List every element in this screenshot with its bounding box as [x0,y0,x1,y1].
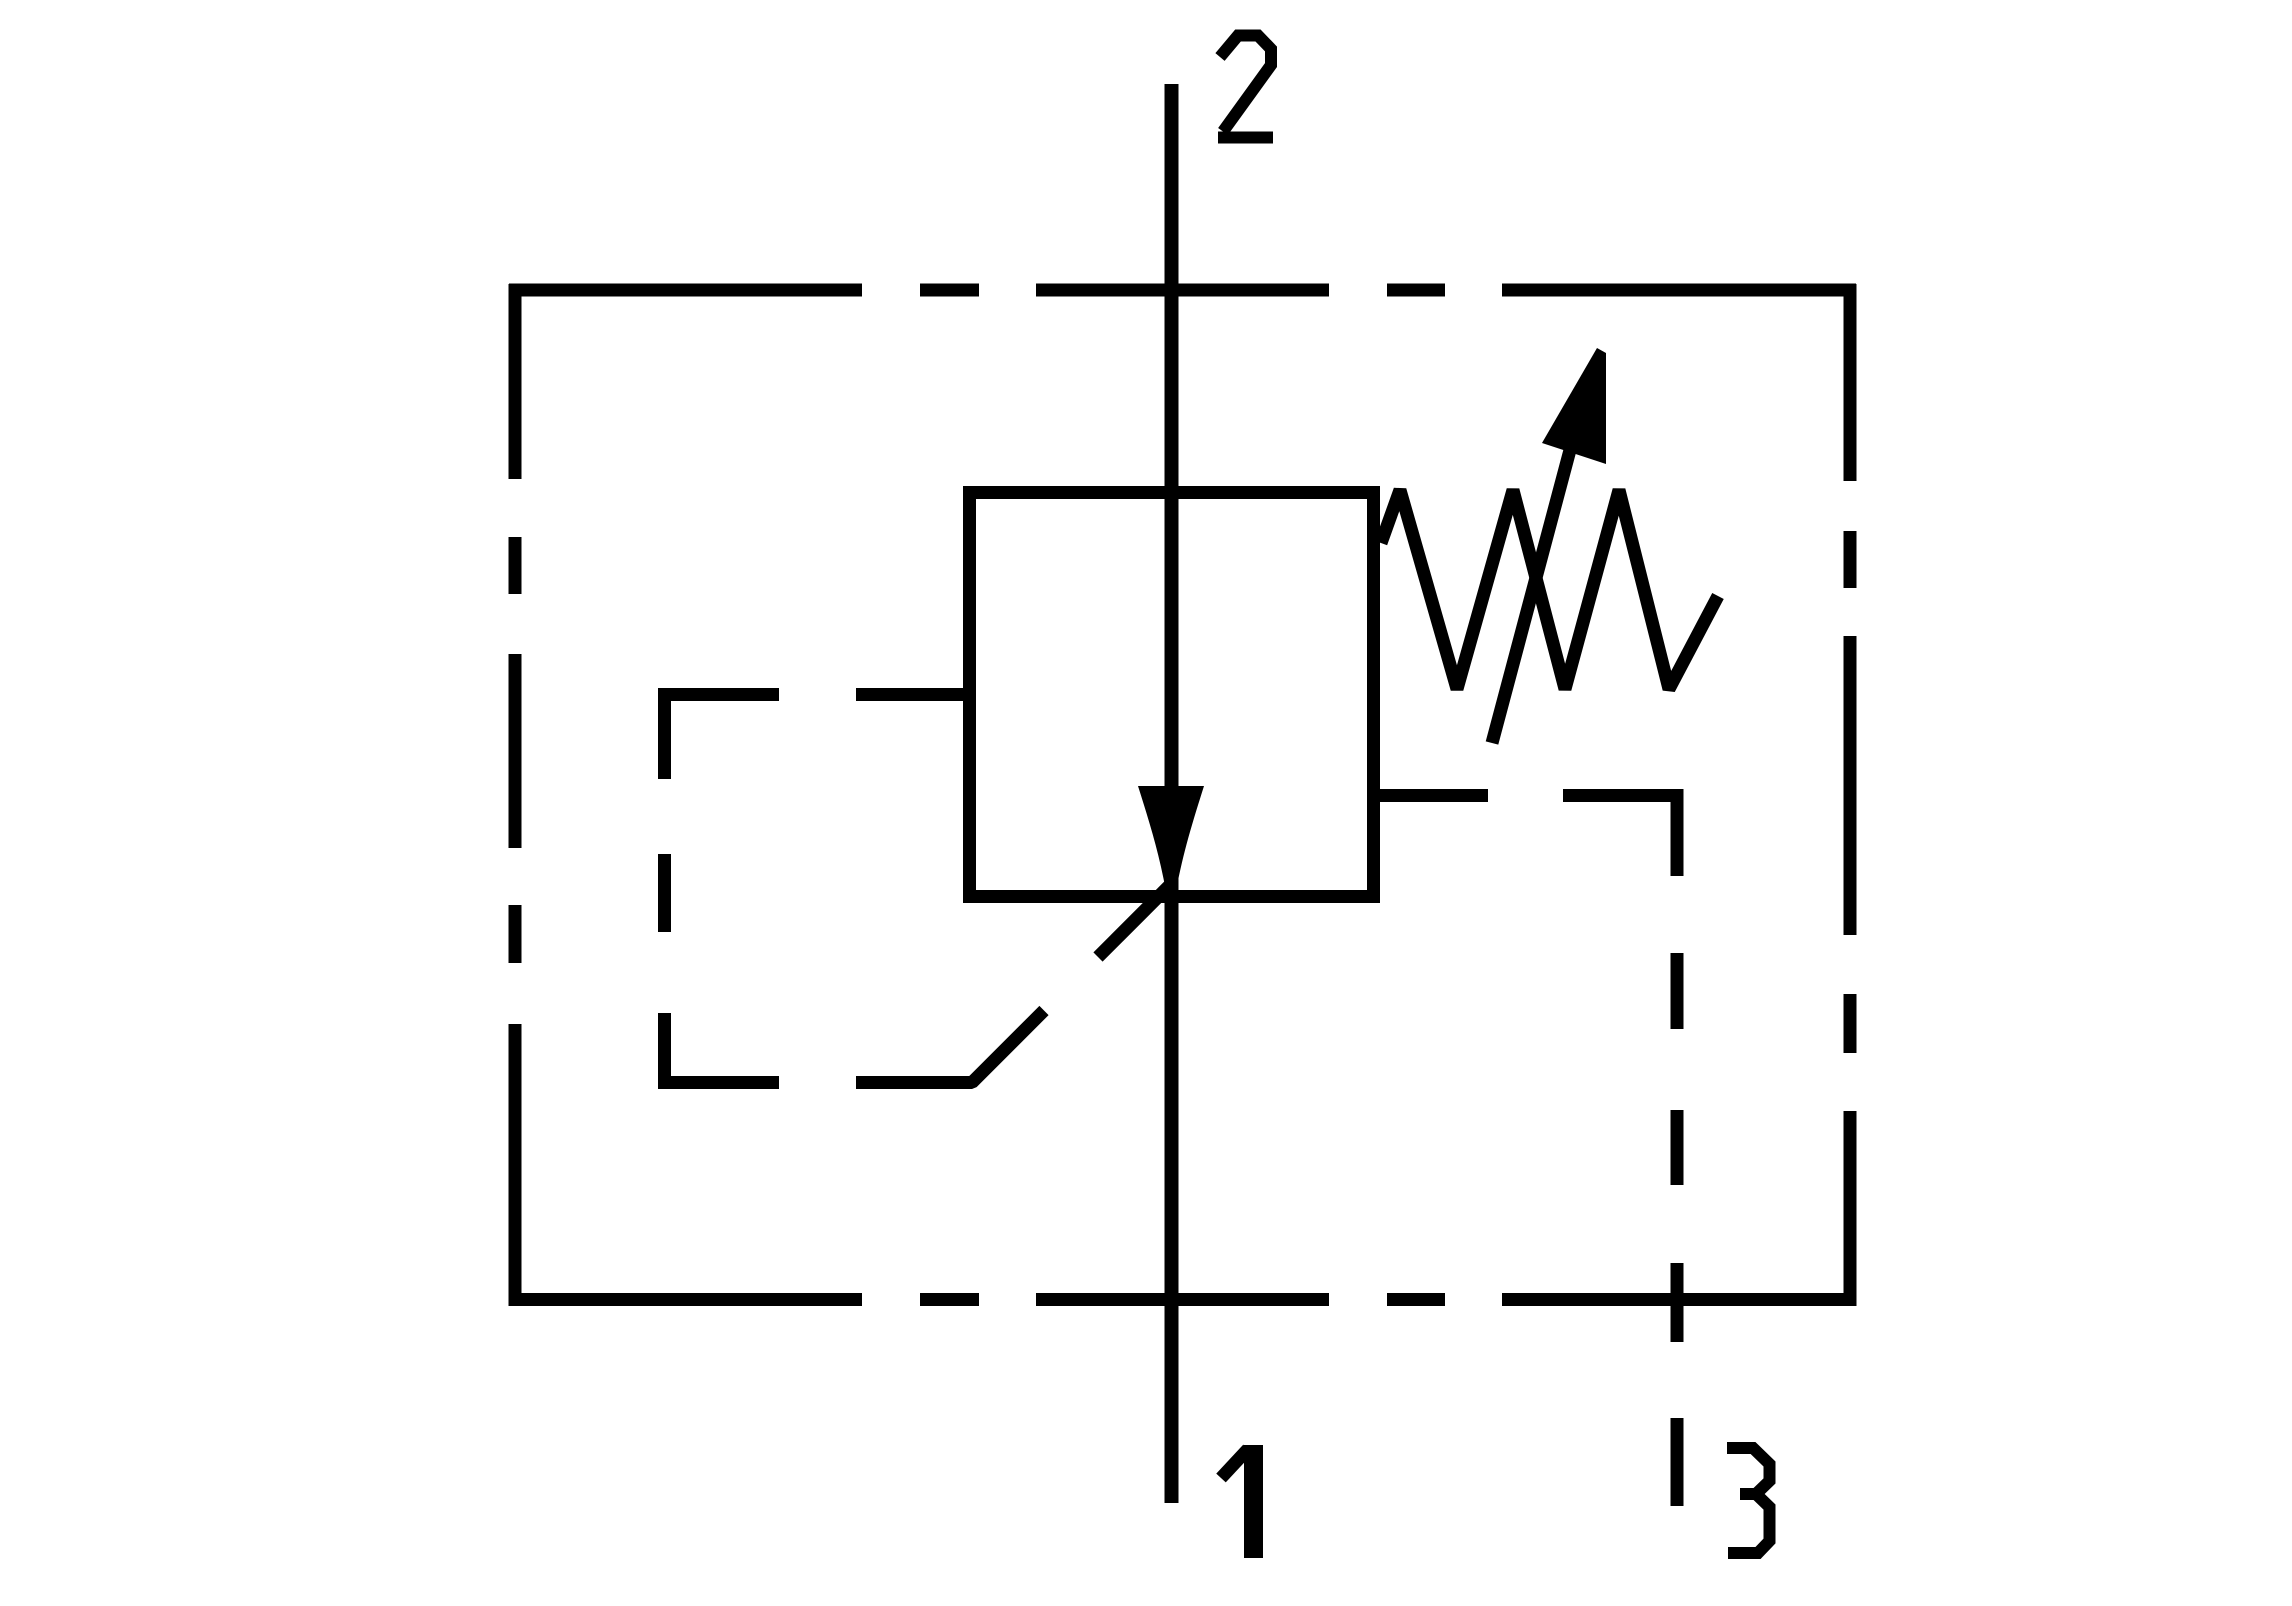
spring (adjustable) [1381,490,1718,689]
enclosure right border (phantom line) [1844,284,1857,1306]
spring adjustment arrowhead [1542,348,1606,464]
port label 2 [1218,36,1273,138]
adjustable throttle diagonal (dashed pilot continuation) [1098,882,1173,957]
pilot line left: horizontal from valve body [658,688,966,701]
port label 3 [1727,1448,1770,1553]
spring adjustment arrow shaft [1492,420,1578,743]
pilot line left: bottom horizontal [658,1011,1044,1083]
pilot line right: horizontal to port 3 [1380,789,1684,802]
pilot line left: vertical [658,688,671,1089]
port label 1 [1221,1445,1254,1558]
wire: main flow line port 2 to port 1 [1165,84,1179,1503]
enclosure bottom border (phantom line) [509,1293,1856,1306]
pilot line right: vertical to port 3 [1671,789,1684,1506]
valve body square [970,493,1374,897]
enclosure top border (phantom line) [509,284,1856,297]
enclosure left border (phantom line) [509,284,522,1306]
flow direction arrowhead [1138,786,1204,897]
